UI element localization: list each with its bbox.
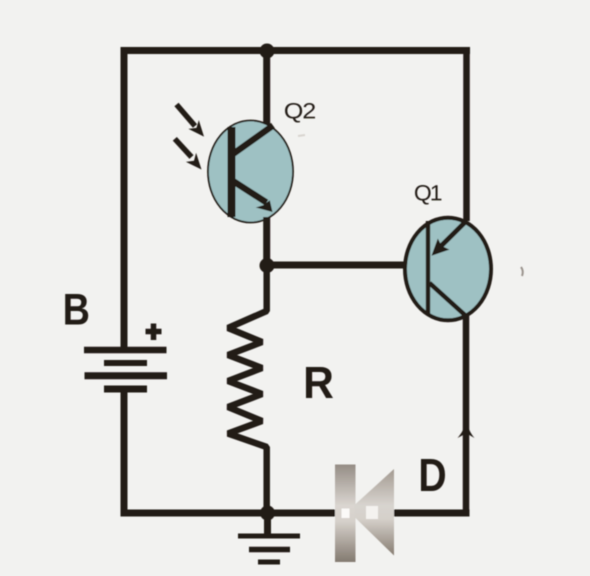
buzzer D: highlight square on cone (366, 506, 378, 519)
ground: bar 2 (249, 547, 290, 553)
wire: left vertical from top rail to battery + plate (121, 47, 128, 350)
wire: vertical from Q2 emitter to middle node (263, 217, 270, 269)
label R (306, 367, 333, 398)
wire: vertical from top junction to Q2 collector (263, 50, 270, 127)
transistor Q1: emitter diagonal with arrow toward base (432, 221, 467, 256)
label D (421, 459, 445, 491)
current direction arrow on right wire (458, 421, 475, 439)
light arrow 2 into Q2 (175, 139, 202, 170)
battery B: plus sign (146, 324, 162, 341)
phototransistor Q2: base bar (228, 127, 236, 217)
transistor Q1: base bar (426, 221, 430, 314)
light arrow 1 into Q2 (177, 105, 205, 137)
phototransistor Q2: emitter diagonal with arrow (233, 181, 273, 212)
stray mark near Q1 (521, 267, 523, 276)
buzzer D: highlight square on bar (342, 509, 350, 519)
ground: bar 1 (238, 534, 300, 539)
buzzer D: magnet bar (gradient rectangle) (335, 465, 356, 563)
node: top junction dot (260, 44, 275, 59)
ground: stub (264, 513, 271, 534)
battery B: plate 2 (short) (104, 360, 147, 366)
battery B: plate 4 (short, -) (104, 386, 147, 393)
wire: top horizontal rail (121, 47, 471, 54)
wire: right vertical from top rail to Q1 emitter (463, 47, 470, 221)
resistor R zigzag (228, 262, 267, 516)
buzzer D: cone (gradient triangle) (355, 469, 395, 556)
wire: right vertical from Q1 collector to bottom rail (463, 316, 470, 517)
phototransistor Q2: body circle (208, 121, 293, 223)
transistor Q1: body circle (405, 218, 491, 321)
battery B: plate 1 (long, +) (84, 347, 167, 354)
label Q1 (415, 185, 441, 205)
stray mark near Q2 (298, 135, 305, 136)
wire: bottom horizontal rail (121, 510, 470, 517)
ground: bar 3 (258, 560, 280, 565)
node: middle junction dot (260, 258, 275, 273)
wire: horizontal from middle node to Q1 base (263, 262, 406, 269)
label B (65, 294, 88, 325)
label Q2 (285, 103, 315, 123)
battery B: plate 3 (long) (85, 372, 168, 379)
wire: left vertical from battery - plate to bottom rail (121, 389, 128, 517)
transistor Q1: collector diagonal (430, 283, 467, 316)
phototransistor Q2: collector diagonal (233, 126, 273, 155)
node: bottom junction dot (260, 506, 275, 521)
